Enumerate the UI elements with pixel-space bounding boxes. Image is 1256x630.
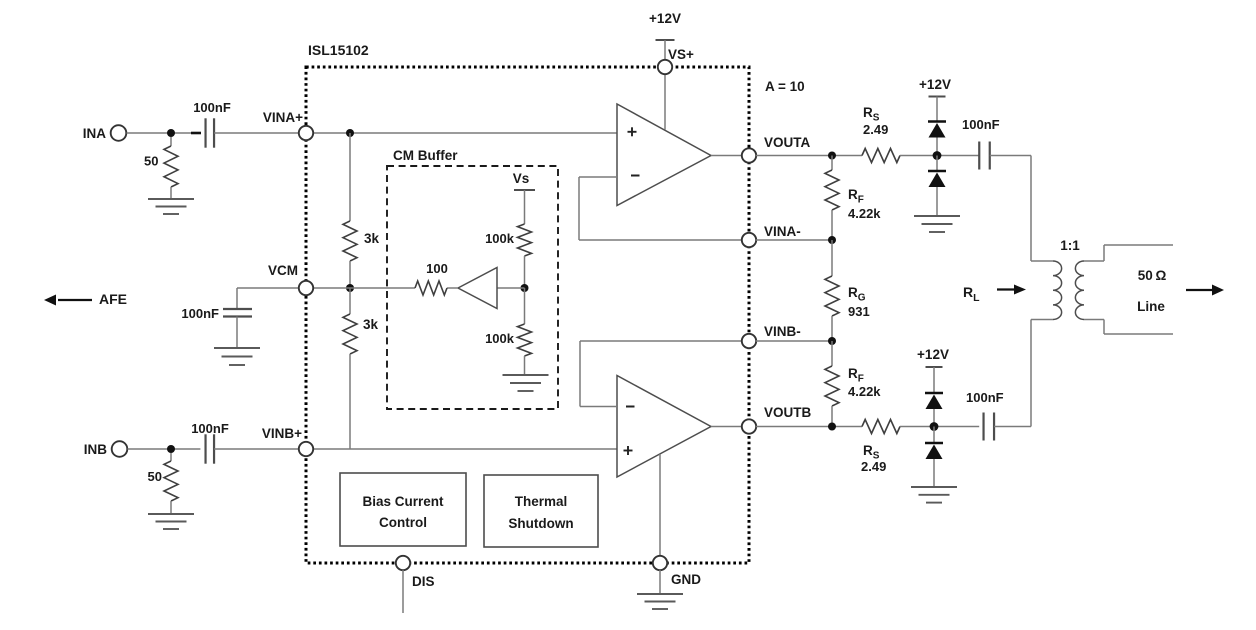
RL arrow <box>997 288 1014 290</box>
transformer T1 secondary winding <box>1075 261 1084 320</box>
svg-text:2.49: 2.49 <box>861 459 886 474</box>
wire D3 to node <box>933 409 935 427</box>
op-amp U2 <box>617 376 711 478</box>
op-amp U1 <box>617 104 711 206</box>
svg-text:VINB+: VINB+ <box>262 426 302 441</box>
wire VOUTA row <box>756 155 862 157</box>
capacitor C3 100nF (VCM) <box>236 288 238 309</box>
node clamp B <box>930 422 939 431</box>
svg-text:50 Ω: 50 Ω <box>1138 268 1167 283</box>
+12V supply bar (top clamp) <box>929 96 946 98</box>
wire secondary top <box>1084 260 1104 262</box>
U1 + symbol <box>628 131 637 133</box>
ground below C3 <box>214 347 260 349</box>
wire VINB+ to op-amp U2 + <box>313 448 617 450</box>
wire VINB- row <box>756 340 832 342</box>
transformer T1 primary winding <box>1053 261 1062 320</box>
wire secondary bottom <box>1084 319 1104 321</box>
svg-text:A = 10: A = 10 <box>765 79 805 94</box>
pin VINA+ <box>299 126 313 140</box>
svg-text:Thermal: Thermal <box>515 494 568 509</box>
resistor RF1 lead <box>831 156 833 171</box>
wire VOUTB row <box>756 426 862 428</box>
diode D4 <box>925 442 943 445</box>
+12V supply bar <box>656 39 675 41</box>
resistor R7 100k lower <box>518 324 532 356</box>
resistor R4 3k <box>343 314 357 354</box>
wire INB to cap <box>128 448 201 450</box>
wire RG lead top <box>831 240 833 276</box>
svg-text:VINB-: VINB- <box>764 324 801 339</box>
pin VOUTB <box>742 419 756 433</box>
svg-text:3k: 3k <box>363 317 379 332</box>
resistor RG 931 <box>825 276 839 316</box>
diode D3 <box>925 392 943 395</box>
node RF1 top <box>828 152 836 160</box>
wire VCM to cap <box>237 287 299 289</box>
pin VOUTA <box>742 148 756 162</box>
node VINA+ junction <box>346 129 354 137</box>
Vs supply bar <box>514 189 535 191</box>
diode D1 <box>928 120 946 123</box>
node RF2 bottom <box>828 423 836 431</box>
svg-text:Bias Current: Bias Current <box>362 494 444 509</box>
svg-text:Control: Control <box>379 515 427 530</box>
svg-text:931: 931 <box>848 304 870 319</box>
wire rail lower lead <box>349 288 351 314</box>
resistor R5 100k upper <box>518 224 532 256</box>
capacitor C2 100nF plates <box>204 434 206 463</box>
ground below R1 <box>148 198 194 200</box>
node junction B <box>167 445 175 453</box>
svg-text:+12V: +12V <box>917 347 949 362</box>
svg-text:VINA-: VINA- <box>764 224 801 239</box>
pin VINB+ <box>299 442 313 456</box>
wire 100k to node <box>524 256 526 288</box>
svg-text:100nF: 100nF <box>966 390 1004 405</box>
wire RF2 lead top <box>831 341 833 366</box>
wire cap to VINB+ <box>214 448 299 450</box>
resistor RS2 2.49 <box>862 420 900 434</box>
wire U2 feedback <box>580 340 742 342</box>
wire D1 to node <box>936 138 938 156</box>
svg-text:100nF: 100nF <box>962 117 1000 132</box>
svg-text:50: 50 <box>144 154 158 169</box>
wire buffer out to 100 <box>447 287 458 289</box>
svg-text:Line: Line <box>1137 299 1165 314</box>
block Thermal Shutdown <box>484 475 598 547</box>
buffer amp U3 <box>458 268 497 309</box>
terminal INA <box>111 125 127 141</box>
svg-text:VOUTA: VOUTA <box>764 135 810 150</box>
svg-text:3k: 3k <box>364 231 380 246</box>
AFE arrow <box>58 299 92 301</box>
svg-text:Vs: Vs <box>513 171 530 186</box>
svg-text:VINA+: VINA+ <box>263 110 303 125</box>
wire node to D4 <box>933 427 935 444</box>
svg-text:100nF: 100nF <box>181 306 219 321</box>
pin VS+ <box>658 60 672 74</box>
pin VINA- <box>742 233 756 247</box>
diode D2 <box>928 170 946 173</box>
resistor R2 50 <box>170 453 172 461</box>
polarity dash <box>191 132 201 135</box>
svg-text:1:1: 1:1 <box>1060 238 1080 253</box>
svg-text:CM Buffer: CM Buffer <box>393 148 458 163</box>
wire DIS stub <box>402 570 404 613</box>
svg-text:DIS: DIS <box>412 574 435 589</box>
wire transformer left bottom <box>1030 320 1032 427</box>
wire INA to cap <box>127 132 201 134</box>
U2 + symbol <box>624 450 633 452</box>
resistor R3 3k <box>343 221 357 261</box>
svg-text:+12V: +12V <box>919 77 951 92</box>
svg-text:4.22k: 4.22k <box>848 206 881 221</box>
resistor R6 100 <box>415 281 447 295</box>
svg-text:50: 50 <box>148 469 162 484</box>
capacitor C4 100nF plates <box>978 142 980 170</box>
terminal INB <box>112 441 128 457</box>
resistor RF1 4.22k <box>825 170 839 210</box>
node divider <box>521 284 529 292</box>
capacitor C5 100nF plates <box>982 413 984 441</box>
block Bias Current Control <box>340 473 466 546</box>
svg-text:100: 100 <box>426 261 448 276</box>
wire transformer left top <box>1030 156 1032 262</box>
ground below R2 <box>148 513 194 515</box>
wire U2 to GND pin <box>659 454 661 556</box>
wire +12V to VS+ pin <box>664 40 666 60</box>
wire supply to D3 <box>933 367 935 393</box>
svg-text:Shutdown: Shutdown <box>508 516 573 531</box>
wire RG lead bottom <box>831 316 833 341</box>
wire VINA- row <box>756 239 832 241</box>
svg-text:100nF: 100nF <box>191 421 229 436</box>
svg-text:VOUTB: VOUTB <box>764 405 812 420</box>
wire VS+ pin to U1 <box>664 74 666 130</box>
wire RS1 to diode node <box>900 155 979 157</box>
wire VINA+ to op-amp U1 + <box>313 132 617 134</box>
node VINA- junction <box>828 236 836 244</box>
wire supply to D1 <box>936 97 938 122</box>
IC boundary ISL15102 (dotted box) <box>306 67 749 563</box>
svg-text:4.22k: 4.22k <box>848 384 881 399</box>
wire D2 to ground <box>936 187 938 216</box>
svg-text:100nF: 100nF <box>193 100 231 115</box>
wire C5 to transformer <box>994 426 1031 428</box>
node junction A <box>167 129 175 137</box>
+12V supply bar (bottom clamp) <box>926 366 943 368</box>
ground CM divider <box>503 374 549 376</box>
wire RF2 lead bottom <box>831 406 833 427</box>
svg-text:100k: 100k <box>485 331 515 346</box>
pin DIS <box>396 556 410 570</box>
wire cap to VINA+ <box>214 132 299 134</box>
wire rail to VINB+ row <box>349 354 351 449</box>
wire 100k to ground <box>524 356 526 375</box>
svg-text:ISL15102: ISL15102 <box>308 42 369 58</box>
pin VINB- <box>742 334 756 348</box>
wire RF1 to VINA- <box>831 210 833 240</box>
ground top clamp <box>914 215 960 217</box>
wire GND pin to ground <box>659 570 661 594</box>
wire Vs to 100k <box>524 190 526 224</box>
node VINB- junction <box>828 337 836 345</box>
resistor RS1 2.49 <box>862 149 900 163</box>
wire U2 output <box>711 426 742 428</box>
wire C4 to transformer <box>990 155 1031 157</box>
wire rail upper <box>349 133 351 221</box>
pin GND <box>653 556 667 570</box>
wire node to D2 <box>936 156 938 172</box>
U2 - symbol <box>626 406 635 408</box>
wire node to buffer input <box>497 287 525 289</box>
capacitor C1 100nF plates <box>204 118 206 147</box>
resistor RF2 4.22k <box>825 366 839 406</box>
svg-text:AFE: AFE <box>99 291 127 307</box>
node VCM junction <box>346 284 354 292</box>
wire U1 feedback <box>579 176 617 178</box>
svg-text:VCM: VCM <box>268 263 298 278</box>
wire VCM into CM buffer <box>313 287 415 289</box>
node clamp A <box>933 151 942 160</box>
wire node to 100k lower <box>524 288 526 324</box>
svg-text:100k: 100k <box>485 231 515 246</box>
svg-text:GND: GND <box>671 572 701 587</box>
svg-text:INA: INA <box>83 126 107 141</box>
wire rail to VCM <box>349 261 351 288</box>
ground bottom clamp <box>911 486 957 488</box>
svg-text:2.49: 2.49 <box>863 122 888 137</box>
output arrow <box>1186 289 1212 291</box>
wire U1 output <box>711 155 742 157</box>
wire RS2 to diode node <box>900 426 979 428</box>
U1 - symbol <box>631 175 640 177</box>
resistor R1 50 <box>170 137 172 146</box>
svg-text:VS+: VS+ <box>668 47 694 62</box>
svg-text:INB: INB <box>84 442 108 457</box>
ground GND pin <box>637 593 683 595</box>
CM Buffer dashed box <box>387 166 558 409</box>
wire D4 to ground <box>933 459 935 487</box>
pin VCM <box>299 281 313 295</box>
svg-text:+12V: +12V <box>649 11 681 26</box>
